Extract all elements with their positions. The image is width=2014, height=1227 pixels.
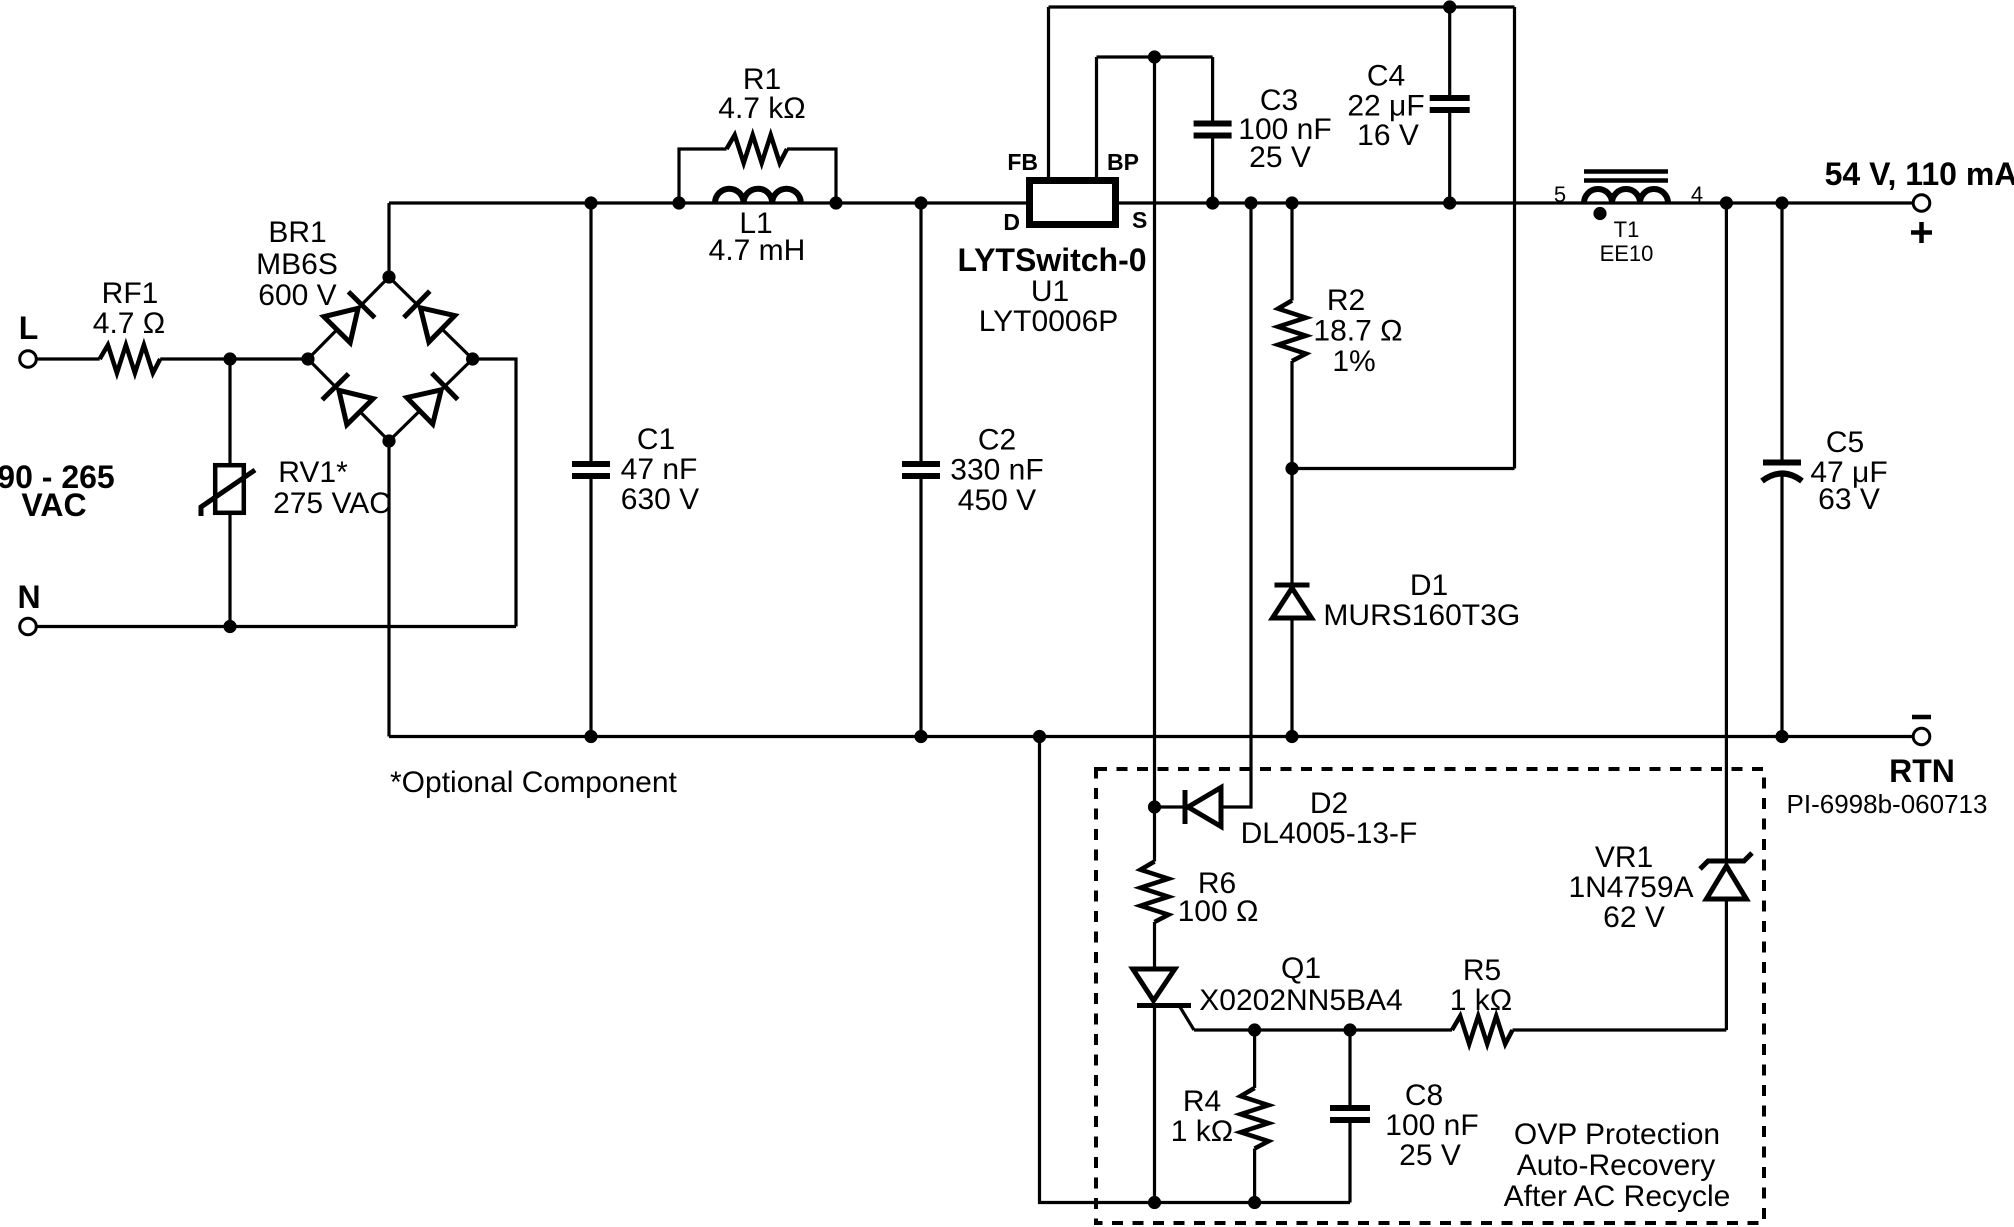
wire VR1 cathode riser from output rail (1725, 203, 1728, 863)
terminal RTN (1913, 728, 1930, 745)
node R4 top junction (1248, 1023, 1261, 1036)
svg-text:VR1: VR1 (1595, 841, 1653, 874)
thyristor Q1 (1133, 969, 1191, 1006)
svg-text:18.7 Ω: 18.7 Ω (1313, 315, 1402, 348)
svg-text:PI-6998b-060713: PI-6998b-060713 (1787, 789, 1988, 819)
capacitor C4 (1430, 7, 1470, 203)
svg-text:47 nF: 47 nF (621, 453, 698, 486)
bridge BR1 diode lower-left (322, 374, 373, 425)
node return rail C2 junction (914, 730, 927, 743)
wire L terminal to RF1 (37, 357, 100, 360)
svg-text:T1: T1 (1614, 217, 1640, 242)
svg-text:R5: R5 (1463, 954, 1501, 987)
svg-text:OVP Protection: OVP Protection (1514, 1118, 1720, 1151)
svg-text:63 V: 63 V (1818, 483, 1880, 516)
svg-text:600 V: 600 V (258, 279, 336, 312)
transformer T1 core (1584, 172, 1668, 181)
svg-text:D: D (1003, 209, 1020, 235)
bridge BR1 diode upper-right (404, 291, 455, 342)
node return rail C1 junction (584, 730, 597, 743)
capacitor C3 (1194, 57, 1232, 203)
wire RF1 to bridge left node (160, 357, 308, 360)
svg-text:1 kΩ: 1 kΩ (1171, 1115, 1233, 1148)
wire Q1 cathode to OVP bottom rail (1153, 1006, 1156, 1203)
svg-text:L: L (19, 310, 39, 346)
resistor RF1 (100, 345, 161, 373)
svg-text:*Optional Component: *Optional Component (390, 766, 678, 799)
label OVP caption (1504, 1118, 1731, 1213)
bridge BR1 diode lower-right (407, 373, 458, 424)
wire D1 cathode lead (1290, 469, 1293, 586)
wire R1 bypass loop left (679, 149, 727, 203)
wire Q1 gate lead (1180, 1007, 1194, 1030)
svg-text:After AC Recycle: After AC Recycle (1504, 1180, 1731, 1213)
wire R2 bottom to feedback drop (1292, 467, 1515, 470)
IC U1 LYTSwitch-0 body (1030, 181, 1116, 225)
svg-text:100 Ω: 100 Ω (1178, 895, 1259, 928)
wire D1 anode lead (1290, 618, 1293, 737)
node return rail OVP leg junction (1033, 730, 1046, 743)
wire bridge bottom node to return rail (387, 441, 390, 737)
node C2 top junction (914, 196, 927, 209)
resistor R4 (1241, 1088, 1269, 1149)
node L1 left junction (672, 196, 685, 209)
inductor L1 (715, 189, 801, 203)
wire return rail (389, 735, 1913, 738)
wire FB pin riser (1047, 7, 1050, 177)
wire bridge arm upper-left (308, 277, 389, 359)
svg-text:1 kΩ: 1 kΩ (1450, 984, 1512, 1017)
node VR1 riser junction on rail (1720, 196, 1733, 209)
resistor R1 (727, 135, 788, 163)
wire RV1 bottom lead (228, 515, 231, 627)
svg-text:EE10: EE10 (1600, 241, 1654, 266)
minus sign (1912, 715, 1931, 720)
bridge BR1 diode upper-left (324, 292, 375, 343)
svg-text:4.7 Ω: 4.7 Ω (93, 307, 165, 340)
svg-text:FB: FB (1007, 149, 1038, 175)
svg-text:S: S (1132, 207, 1147, 233)
svg-text:Q1: Q1 (1281, 952, 1321, 985)
label input 90 - 265 VAC (0, 459, 115, 523)
svg-text:D1: D1 (1410, 569, 1448, 602)
node OVP bottom Q1 junction (1148, 1196, 1161, 1209)
wire BP pin riser (1095, 57, 1098, 177)
svg-text:330 nF: 330 nF (950, 454, 1043, 487)
svg-text:25 V: 25 V (1399, 1139, 1461, 1172)
svg-text:MB6S: MB6S (256, 248, 338, 281)
wire D2 cathode lead (1155, 805, 1184, 808)
wire BP rail (1097, 55, 1213, 58)
node C1 top junction (584, 196, 597, 209)
wire RV1 top lead (228, 359, 231, 463)
svg-text:RTN: RTN (1889, 753, 1955, 789)
node bridge right (466, 352, 479, 365)
svg-text:RV1*: RV1* (278, 456, 348, 489)
resistor R2 (1278, 301, 1306, 362)
svg-text:100 nF: 100 nF (1385, 1109, 1478, 1142)
svg-text:D2: D2 (1310, 787, 1348, 820)
transformer T1 winding (1584, 189, 1668, 203)
wire N rail up to bridge right node (473, 359, 516, 627)
zener VR1 (1700, 853, 1752, 899)
svg-text:U1: U1 (1031, 275, 1069, 308)
plus sign (1911, 222, 1932, 243)
resistor R6 (1141, 862, 1169, 923)
resistor R5 (1452, 1016, 1513, 1044)
node bridge left (301, 352, 314, 365)
varistor RV1 (201, 465, 255, 516)
wire R2 bottom lead (1290, 361, 1293, 469)
svg-text:LYTSwitch-0: LYTSwitch-0 (957, 242, 1146, 278)
svg-text:RF1: RF1 (102, 277, 159, 310)
svg-text:450 V: 450 V (958, 484, 1036, 517)
node C3 bottom junction (1206, 196, 1219, 209)
svg-text:C4: C4 (1367, 60, 1405, 93)
wire D2 anode riser to S rail (1221, 203, 1251, 807)
svg-text:BP: BP (1107, 149, 1139, 175)
svg-text:LYT0006P: LYT0006P (979, 305, 1119, 338)
svg-text:4: 4 (1691, 182, 1703, 207)
terminal L (20, 351, 37, 368)
wire R4 bottom lead (1253, 1149, 1256, 1203)
capacitor C5 polarized (1762, 203, 1802, 737)
node C5 top junction (1775, 196, 1788, 209)
wire bridge arm lower-right (389, 359, 473, 441)
svg-text:DL4005-13-F: DL4005-13-F (1241, 817, 1418, 850)
terminal output positive (1913, 195, 1930, 212)
svg-text:C2: C2 (978, 424, 1016, 457)
node R2 top junction (1285, 196, 1298, 209)
svg-text:C8: C8 (1405, 1079, 1443, 1112)
svg-text:R2: R2 (1327, 284, 1365, 317)
wire bridge arm lower-left (308, 359, 389, 441)
svg-text:54 V, 110 mA: 54 V, 110 mA (1825, 156, 2014, 192)
wire R2 top lead (1290, 203, 1293, 301)
capacitor C8 (1330, 1030, 1370, 1203)
svg-text:4.7 kΩ: 4.7 kΩ (718, 92, 805, 125)
node bridge top (382, 270, 395, 283)
wire N rail (37, 625, 517, 628)
svg-text:MURS160T3G: MURS160T3G (1323, 599, 1520, 632)
svg-text:1%: 1% (1332, 345, 1375, 378)
capacitor C2 (902, 203, 940, 737)
svg-text:BR1: BR1 (268, 216, 326, 249)
svg-text:275 VAC: 275 VAC (273, 487, 391, 520)
wire R1 bypass loop right (787, 149, 836, 203)
node bridge bottom (382, 434, 395, 447)
svg-text:16 V: 16 V (1357, 119, 1419, 152)
diode D2 (1185, 788, 1221, 827)
node D2 riser junction on rail (1244, 196, 1257, 209)
wire bridge arm upper-right (389, 277, 473, 359)
svg-text:X0202NN5BA4: X0202NN5BA4 (1199, 984, 1402, 1017)
wire OVP left leg to return rail (1040, 737, 1155, 1203)
node RV1 bottom junction (223, 620, 236, 633)
svg-text:Auto-Recovery: Auto-Recovery (1517, 1149, 1715, 1182)
wire OVP bottom rail (1155, 1201, 1351, 1204)
svg-text:R4: R4 (1183, 1085, 1221, 1118)
svg-text:C1: C1 (637, 423, 675, 456)
svg-text:22 μF: 22 μF (1347, 89, 1424, 122)
terminal N (20, 618, 37, 635)
node BP rail junction (1148, 50, 1161, 63)
node C4 bottom junction (1443, 196, 1456, 209)
node return rail C5 junction (1775, 730, 1788, 743)
node C4 top junction (1443, 0, 1456, 13)
svg-text:C5: C5 (1826, 426, 1864, 459)
capacitor C1 (572, 203, 610, 737)
node D1 anode junction on return rail (1285, 730, 1298, 743)
wire top feedback rail (1049, 5, 1515, 8)
svg-text:630 V: 630 V (621, 483, 699, 516)
svg-text:N: N (17, 579, 40, 615)
node OVP bottom R4 junction (1248, 1196, 1261, 1209)
svg-text:VAC: VAC (21, 487, 86, 523)
diode D1 (1273, 585, 1312, 618)
T1 phase dot (1593, 207, 1606, 220)
svg-text:1N4759A: 1N4759A (1568, 871, 1693, 904)
svg-text:4.7 mH: 4.7 mH (709, 234, 806, 267)
svg-text:5: 5 (1554, 182, 1566, 207)
OVP dashed box (1096, 769, 1764, 1223)
node L1 right junction (829, 196, 842, 209)
wire R5 to VR1 anode (1513, 1028, 1727, 1031)
wire R4 top lead (1253, 1030, 1256, 1088)
wire main rail left section (389, 201, 1026, 204)
node D2 cathode junction (1148, 800, 1161, 813)
wire bridge top node to main rail (387, 203, 390, 277)
node R2 bottom junction (1285, 462, 1298, 475)
node RV1 top junction (223, 352, 236, 365)
wire VR1 anode lead (1725, 899, 1728, 1030)
wire gate rail (1194, 1028, 1452, 1031)
node C8 top junction (1343, 1023, 1356, 1036)
wire R6 top lead (1153, 807, 1156, 862)
wire feedback loop right drop (1513, 7, 1516, 469)
svg-text:62 V: 62 V (1603, 901, 1665, 934)
wire BP node down to D2 cathode (1153, 57, 1156, 807)
wire main rail right section (1119, 201, 1913, 204)
svg-text:25 V: 25 V (1249, 141, 1311, 174)
wire R6 bottom lead to Q1 anode (1153, 922, 1156, 969)
